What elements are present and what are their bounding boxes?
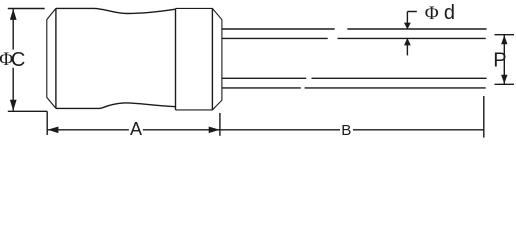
svg-text:d: d	[444, 2, 455, 24]
inductor drum body bottom edge (waisted)	[56, 103, 176, 109]
svg-text:A: A	[130, 119, 142, 139]
arrowhead P down	[501, 75, 507, 84]
arrowhead A left	[48, 127, 59, 134]
svg-text:C: C	[11, 49, 25, 71]
inductor drum body top edge (waisted)	[56, 8, 176, 13]
arrowhead Phi-d up (onto lead bottom)	[404, 38, 411, 46]
dimension A left extension line	[46, 111, 48, 135]
flange outline (top, chamfers, back rim, bottom)	[176, 8, 222, 110]
dimension A line (gap at label)	[48, 129, 220, 131]
dimension PhiC top extension line	[8, 8, 45, 10]
arrowhead PhiC up	[10, 9, 17, 20]
bottom lead upper line (with break)	[222, 77, 487, 79]
dimension P vertical dimension line	[503, 35, 505, 84]
svg-text:P: P	[493, 49, 506, 71]
dimension B line (gap at label)	[220, 129, 484, 131]
inductor drum body front-left edge	[55, 8, 57, 108]
arrowhead PhiC down	[10, 100, 17, 111]
arrowhead P up	[501, 35, 507, 44]
flange front right edge	[211, 8, 213, 110]
svg-text:Φ: Φ	[425, 3, 439, 24]
dimension P bottom tick	[495, 83, 515, 85]
inductor drum body left end cap (rim + chamfers)	[47, 8, 56, 108]
svg-text:B: B	[341, 122, 351, 139]
dimension PhiC vertical dimension line (gap at text)	[12, 9, 14, 111]
arrowhead A right	[209, 127, 220, 134]
top lead upper line (with break)	[222, 28, 487, 30]
dimension A/B shared extension line	[219, 113, 221, 136]
dimension PhiC bottom extension line	[8, 110, 47, 112]
dimension Phi-d lower pointer line	[406, 44, 408, 55]
dimension Phi-d upper pointer line with tick	[407, 12, 416, 25]
dimension B right extension line	[483, 96, 485, 138]
dimension P top tick	[495, 34, 515, 36]
top lead lower line (with break)	[222, 37, 486, 39]
drum / flange boundary line	[175, 8, 177, 110]
bottom lead lower line (with break)	[222, 87, 486, 89]
arrowhead Phi-d down (onto lead top)	[404, 23, 411, 30]
